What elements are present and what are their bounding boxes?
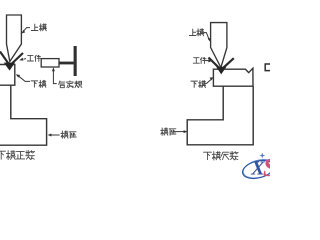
- left die seat (模座) step outline: [0, 85, 47, 145]
- arrowhead 工件 (left): [19, 58, 23, 61]
- leader 工件 (left): [23, 58, 26, 61]
- leader 模座 (right): [174, 131, 186, 133]
- label 下模 (right): [191, 81, 206, 88]
- left workpiece 工件 thick V: [0, 52, 23, 66]
- arrowhead 模座 (left): [48, 134, 52, 137]
- back gauge mounting bar: [74, 46, 77, 76]
- left lower die (下模) block: [0, 65, 15, 86]
- logo ellipse swoosh: [241, 157, 277, 182]
- leader 工件 (right): [205, 60, 208, 62]
- label 上模 (left): [31, 24, 46, 31]
- leader arrows: [18, 28, 212, 135]
- label 工件 (left): [27, 55, 40, 61]
- label 后定规 (left): [59, 81, 82, 88]
- partial box at right edge: [265, 64, 271, 71]
- leader 上模 (left): [23, 28, 30, 32]
- caption 下模反装 (right): [204, 152, 239, 160]
- left punch (上模) body: [7, 15, 22, 62]
- label 下模 (left): [31, 80, 46, 87]
- label 模座 (right): [161, 128, 176, 135]
- right punch (上模) body: [211, 23, 227, 68]
- left die groove filled V: [4, 63, 15, 71]
- leader 后定规 (left): [53, 70, 56, 84]
- right die seat (模座) step outline: [187, 86, 253, 145]
- right die groove filled V: [216, 67, 226, 75]
- leader 下模 (left): [18, 76, 30, 82]
- arrowhead 上模 (right): [208, 38, 211, 42]
- arrowhead 下模 (right): [210, 77, 214, 80]
- label 工件 (right): [193, 57, 206, 63]
- logo sparkle: [259, 153, 265, 159]
- right workpiece 工件 thick V: [209, 58, 234, 70]
- back gauge arm (thick): [59, 62, 74, 65]
- svg-text:S: S: [263, 153, 270, 180]
- right lower die (下模) block with corner notch: [213, 68, 253, 86]
- caption 下模正装 (left): [0, 151, 35, 160]
- label 模座 (left): [61, 131, 76, 138]
- arrowhead 后定规 (left): [52, 67, 55, 71]
- leader 下模 (right): [204, 79, 212, 84]
- arrowhead 下模 (left): [16, 74, 20, 77]
- arrowhead 模座 (right): [184, 130, 188, 133]
- arrowhead 上模 (left): [21, 30, 25, 34]
- label 上模 (right): [189, 29, 203, 36]
- arrowhead 工件 (right): [208, 59, 212, 62]
- back gauge 后定规 block: [41, 59, 59, 67]
- leader 上模 (right): [204, 33, 210, 40]
- leader 模座 (left): [50, 134, 60, 136]
